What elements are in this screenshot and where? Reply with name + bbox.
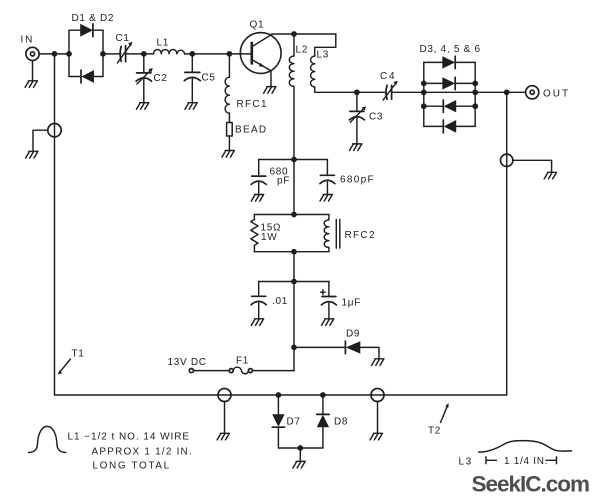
inductor RFC1 <box>225 54 229 113</box>
wire hook from collector rail down to L3 <box>315 34 336 56</box>
inductor RFC2 <box>324 215 340 252</box>
wire RFC2 box top <box>254 214 329 216</box>
svg-text:L3: L3 <box>317 50 330 61</box>
svg-text:LONG TOTAL: LONG TOTAL <box>93 461 171 472</box>
value label 680 pF (left) <box>270 167 291 187</box>
wire L1 to Q1 base <box>185 53 252 55</box>
junction dot (D8 tap) <box>320 392 326 398</box>
arrow T1 <box>58 359 71 374</box>
capacitor C2 (variable, shunt) <box>136 54 153 103</box>
wire L2 bottom to 680pF rail <box>293 86 295 159</box>
wire feedthrough stem to ground <box>224 402 226 434</box>
junction dot (bias rail) <box>291 279 297 285</box>
note dimension marks 1 1/4 IN. <box>486 456 557 467</box>
note drawing L3 coil sketch <box>479 441 572 453</box>
inductor L2 <box>289 34 294 86</box>
ground (below C2) <box>136 103 148 110</box>
capacitor 680pF (right) <box>320 160 335 195</box>
svg-text:L2: L2 <box>296 45 309 56</box>
junction dot (RFC1/base tap) <box>227 51 233 57</box>
svg-text:L1: L1 <box>157 38 170 49</box>
ground (below C3) <box>350 144 362 151</box>
connector J2 (OUT jack) <box>526 86 539 99</box>
wire diode block right bus <box>474 62 476 126</box>
junction dot (cathode rail) <box>297 445 303 451</box>
svg-text:1 1/4 IN.: 1 1/4 IN. <box>504 456 548 467</box>
svg-text:F1: F1 <box>236 356 249 367</box>
svg-text:D8: D8 <box>334 417 348 428</box>
wire RFC2 box bottom <box>254 251 329 253</box>
svg-text:RFC2: RFC2 <box>345 230 376 241</box>
feedthrough capacitor (bus right) <box>371 389 384 402</box>
arrow T2 <box>441 403 449 423</box>
wire bottom bus <box>55 394 507 396</box>
wire loop to C1 <box>103 53 121 55</box>
svg-text:C3: C3 <box>369 112 383 123</box>
wire terminal to fuse <box>194 370 230 372</box>
wire feedthrough stem to ground <box>377 402 379 434</box>
svg-text:D9: D9 <box>346 329 360 340</box>
junction dot (D9 tap) <box>291 345 297 351</box>
wire OUT node down to feedthrough <box>506 92 508 395</box>
diode D1 <box>69 24 103 37</box>
ground (right feedthrough) <box>544 172 556 179</box>
wire IN to D1/D2 network <box>39 53 69 55</box>
svg-text:C5: C5 <box>202 73 216 84</box>
svg-text:BEAD: BEAD <box>235 125 267 136</box>
ground (below right 680pF) <box>320 195 332 202</box>
ground (D9 anode) <box>372 359 384 366</box>
fuse F1 <box>229 367 252 374</box>
svg-text:1W: 1W <box>261 232 277 243</box>
junction dot (C3 tap) <box>354 89 360 95</box>
junction dot (collector/L2 node) <box>291 31 297 37</box>
svg-text:C1: C1 <box>116 33 130 44</box>
svg-text:pF: pF <box>277 176 290 187</box>
svg-text:D1 & D2: D1 & D2 <box>72 13 115 24</box>
junction dot (OUT tap) <box>504 89 510 95</box>
junction dot (box bottom) <box>291 249 297 255</box>
svg-text:IN: IN <box>21 35 35 46</box>
wire box bottom to bias rail <box>293 252 295 282</box>
wire D1/D2 loop frame <box>69 30 103 76</box>
inductor L3 <box>311 56 315 87</box>
wire rail to ground <box>299 448 301 461</box>
feedthrough capacitor (bus left) <box>218 389 231 402</box>
ground (below .01) <box>251 319 263 326</box>
wire bead to ground <box>228 136 230 151</box>
diode D5 <box>424 100 475 112</box>
diode D2 <box>69 70 103 83</box>
note text L1 dimensions <box>68 432 193 472</box>
connector J1 (IN jack) <box>26 47 39 60</box>
svg-text:680pF: 680pF <box>340 175 375 186</box>
capacitor C4 (variable, series) <box>383 81 398 100</box>
junction dot (C2 tap) <box>141 51 147 57</box>
diode D8 <box>317 395 329 448</box>
capacitor C1 (variable, series) <box>117 42 132 63</box>
diode D4 <box>424 77 475 89</box>
node A junction dot (left vertical tap) <box>52 51 58 57</box>
svg-text:D7: D7 <box>287 417 301 428</box>
wire L3 to output line <box>315 87 387 92</box>
junction dots (right bus) <box>472 81 478 109</box>
junction dot (box top) <box>291 212 297 218</box>
capacitor 680pF (left) <box>251 160 266 195</box>
wire fuse to supply node <box>252 370 294 372</box>
diode D6 <box>424 120 475 133</box>
capacitor .01 <box>251 282 266 319</box>
wire 680pF rail <box>259 159 328 161</box>
wire Q1 collector to L2/L3 top <box>272 33 336 35</box>
ground (Q1 emitter) <box>264 71 276 93</box>
svg-text:APPROX 1 1/2 IN.: APPROX 1 1/2 IN. <box>92 447 193 458</box>
ground (bus left feedthrough) <box>217 433 229 440</box>
wire C1 to L1 <box>127 53 154 55</box>
wire bias rail down to D9 node <box>293 282 295 371</box>
svg-text:T2: T2 <box>428 426 441 437</box>
ground (left feedthrough) <box>26 151 38 158</box>
svg-text:T1: T1 <box>72 349 85 360</box>
ground (below 1 uF) <box>322 319 334 326</box>
ground (D7/D8 rail) <box>293 461 305 468</box>
svg-text:OUT: OUT <box>543 89 570 100</box>
svg-text:1μF: 1μF <box>342 298 362 309</box>
svg-text:C4: C4 <box>380 71 396 82</box>
wire L2 rail down to RFC2 box <box>293 160 295 215</box>
transistor Q1 <box>240 33 281 74</box>
svg-text:D3, 4, 5 & 6: D3, 4, 5 & 6 <box>420 44 481 55</box>
junction dots (left bus) <box>421 81 427 109</box>
junction dot (C5 tap) <box>189 51 195 57</box>
ground (below C5) <box>185 103 197 110</box>
capacitor C5 (shunt) <box>184 54 200 103</box>
value label 15 ohm / 1 W <box>261 223 282 244</box>
capacitor C3 (variable, shunt) <box>349 92 366 144</box>
diode D3 <box>424 56 475 68</box>
junction dot (loop left) <box>66 51 72 57</box>
note drawing L1 coil sketch <box>29 426 66 452</box>
diode D9 <box>294 341 379 359</box>
ground (bus right feedthrough) <box>370 433 382 440</box>
wire diode block left bus <box>423 62 425 126</box>
svg-text:.01: .01 <box>272 296 288 307</box>
svg-text:RFC1: RFC1 <box>237 99 268 110</box>
svg-text:L3: L3 <box>459 457 473 468</box>
junction dot (loop right) <box>100 51 106 57</box>
wire IN jack to ground stem <box>32 61 34 81</box>
wire C4 to diode block and OUT <box>392 91 526 93</box>
ferrite BEAD <box>227 123 233 137</box>
feedthrough capacitor (right) <box>501 154 513 166</box>
svg-text:SeekIC.com: SeekIC.com <box>472 472 590 497</box>
svg-text:C2: C2 <box>154 73 168 84</box>
ground (below BEAD) <box>222 151 234 158</box>
ground (below IN jack) <box>25 81 37 88</box>
junction dot (680pF rail) <box>291 157 297 163</box>
wire bias rail <box>259 281 329 283</box>
terminal (13V DC) <box>189 369 193 373</box>
wire feedthrough to ground <box>513 160 552 172</box>
diode D7 <box>272 395 284 448</box>
feedthrough capacitor (left vertical) <box>48 124 61 137</box>
wire feedthrough to ground (left) <box>33 130 48 151</box>
svg-text:L1 −1/2 t NO. 14 WIRE: L1 −1/2 t NO. 14 WIRE <box>68 432 191 443</box>
resistor 15 ohm 1 W <box>251 215 258 252</box>
wire D7/D8 cathode rail <box>278 447 323 449</box>
ground (below left 680pF) <box>251 195 263 202</box>
svg-text:Q1: Q1 <box>250 20 265 31</box>
inductor L1 <box>154 50 185 54</box>
wire RFC1 to bead <box>228 113 230 122</box>
capacitor 1 uF (electrolytic) <box>321 282 337 319</box>
wire left vertical (IN tap to bottom bus) <box>54 54 56 395</box>
junction dot (D7 tap) <box>276 392 282 398</box>
svg-text:13V DC: 13V DC <box>168 357 207 368</box>
